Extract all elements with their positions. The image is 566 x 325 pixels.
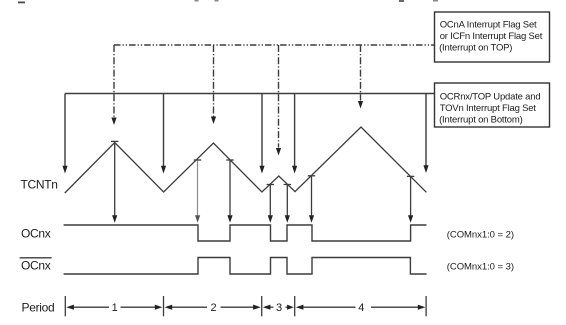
wire: dash-dot vertical arrow at peak 4 (358, 45, 363, 109)
label OCnx with overbar (20, 258, 52, 273)
compare-match tick M6 on falling slope of period 4 (407, 175, 414, 177)
svg-text:3: 3 (276, 302, 282, 314)
svg-text:or ICFn Interrupt Flag Set: or ICFn Interrupt Flag Set (440, 31, 543, 42)
compare-match tick M3 on rising slope of period 3 (267, 184, 274, 186)
annotation box B2: OCRnx/TOP Update (435, 83, 550, 127)
wire: solid vertical arrow at bottom 3 (292, 94, 297, 174)
svg-text:OCnA Interrupt Flag Set: OCnA Interrupt Flag Set (440, 19, 537, 30)
cropped text artifact marks at top edge (18, 0, 438, 3)
svg-text:(Interrupt on Bottom): (Interrupt on Bottom) (439, 115, 522, 126)
svg-text:TCNTn: TCNTn (21, 178, 58, 192)
svg-text:4: 4 (358, 302, 364, 314)
waveform OCnx (COMnx1:0=2) (64, 225, 427, 241)
waveform inverted OCnx (COMnx1:0=3) (64, 258, 427, 275)
svg-text:Period: Period (22, 300, 55, 314)
svg-text:(COMnx1:0 = 2): (COMnx1:0 = 2) (447, 230, 514, 241)
wire: dash-dot TOP interrupt line (horizontal) (114, 44, 435, 46)
wire: connector arrow M6 down to OCnx edge (408, 177, 413, 223)
period ruler tick 0 (64, 296, 66, 316)
tick at TOP of peak 1 (111, 140, 118, 142)
period ruler tick 4 (425, 296, 427, 316)
svg-text:OCnx: OCnx (21, 258, 51, 272)
compare-match tick M4 on falling slope of period 3 (284, 184, 291, 186)
period ruler tick 3 (294, 296, 296, 316)
period segment 4 with arrows and label 4 (296, 305, 426, 310)
wire: solid vertical arrow at bottom 2 (259, 94, 264, 174)
svg-text:1: 1 (112, 302, 118, 314)
wire: dash-dot vertical arrow at peak 3 (276, 45, 281, 156)
annotation box B1: OCnA Interrupt Flag Set (435, 12, 550, 62)
wire: vertical arrow peak1 down to OCnx (112, 143, 117, 223)
wire: dash-dot vertical arrow at peak 2 (211, 45, 216, 124)
period segment 2 with arrows and label 2 (165, 305, 261, 310)
period segment 1 with arrows and label 1 (66, 305, 162, 310)
wire: connector arrow M3 down to OCnx edge (268, 185, 273, 223)
svg-text:(COMnx1:0 = 3): (COMnx1:0 = 3) (447, 262, 514, 273)
period ruler tick 1 (163, 296, 165, 316)
wire: solid vertical arrow at bottom 1 (161, 94, 166, 174)
compare-match tick M2 on falling slope of period 2 (226, 159, 233, 161)
svg-text:OCRnx/TOP Update and: OCRnx/TOP Update and (440, 91, 541, 102)
wire: connector arrow M5 down to OCnx edge (309, 176, 314, 222)
wire: dash-dot vertical arrow at peak 1 (111, 45, 116, 125)
waveform TCNTn triangles (65, 127, 427, 193)
svg-text:(Interrupt on TOP): (Interrupt on TOP) (439, 43, 512, 54)
wire: solid vertical arrow at bottom 0 (62, 94, 67, 174)
wire: solid BOTTOM interrupt line (horizontal) (65, 93, 435, 95)
compare-match tick M1 on rising slope of period 2 (194, 159, 201, 161)
period segment 3 with arrows and label 3 (263, 305, 294, 310)
wire: solid vertical arrow at bottom 4 (423, 94, 428, 174)
compare-match tick M5 on rising slope of period 4 (308, 175, 315, 177)
svg-text:OCnx: OCnx (21, 227, 51, 241)
svg-text:2: 2 (211, 302, 217, 314)
period ruler tick 2 (261, 296, 263, 316)
wire: connector arrow M2 down to OCnx edge (227, 161, 232, 223)
svg-text:TOVn Interrupt Flag Set: TOVn Interrupt Flag Set (440, 103, 537, 114)
wire: gray connector arrow M1 down to OCnx edge (195, 161, 200, 223)
wire: connector arrow M4 down to OCnx edge (285, 185, 290, 223)
